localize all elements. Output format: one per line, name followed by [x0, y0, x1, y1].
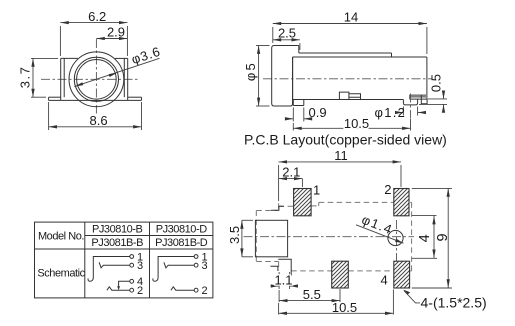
svg-text:φ5: φ5 [243, 61, 258, 81]
svg-text:3.5: 3.5 [227, 226, 242, 244]
svg-text:PJ3081B-D: PJ3081B-D [155, 237, 208, 249]
svg-text:4: 4 [381, 273, 388, 288]
svg-text:6.2: 6.2 [88, 9, 106, 24]
svg-text:2: 2 [384, 182, 391, 197]
svg-text:3: 3 [202, 260, 208, 272]
svg-text:4: 4 [417, 234, 433, 242]
svg-text:Model No.: Model No. [38, 230, 84, 242]
svg-text:11: 11 [334, 148, 348, 163]
svg-text:PJ30810-B: PJ30810-B [92, 224, 142, 236]
svg-text:1: 1 [313, 183, 320, 198]
svg-text:5.5: 5.5 [303, 287, 321, 302]
svg-text:2: 2 [202, 285, 208, 297]
svg-text:9: 9 [435, 233, 451, 241]
svg-text:2: 2 [137, 285, 143, 297]
svg-text:10.5: 10.5 [332, 300, 357, 315]
svg-text:4-(1.5*2.5): 4-(1.5*2.5) [421, 295, 487, 311]
svg-text:3: 3 [137, 260, 143, 272]
svg-text:8.6: 8.6 [90, 113, 108, 128]
svg-text:14: 14 [344, 10, 358, 25]
svg-text:2.9: 2.9 [107, 25, 125, 40]
svg-text:3.7: 3.7 [17, 66, 32, 89]
svg-text:P.C.B Layout(copper-sided view: P.C.B Layout(copper-sided view) [244, 132, 447, 148]
svg-text:PJ30810-D: PJ30810-D [156, 224, 207, 236]
svg-text:2.1: 2.1 [282, 164, 300, 179]
svg-text:0.5: 0.5 [428, 74, 443, 92]
svg-text:φ1.2: φ1.2 [375, 105, 407, 120]
svg-text:1.1: 1.1 [274, 273, 292, 288]
svg-text:0.9: 0.9 [309, 105, 327, 120]
svg-text:2.5: 2.5 [278, 26, 296, 41]
svg-text:10.5: 10.5 [344, 116, 369, 131]
svg-text:PJ3081B-B: PJ3081B-B [91, 237, 143, 249]
svg-text:Schematic: Schematic [37, 268, 85, 280]
